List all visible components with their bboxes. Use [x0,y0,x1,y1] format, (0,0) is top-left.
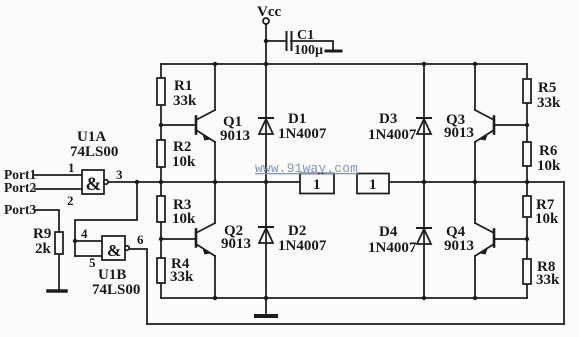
svg-text:U1A: U1A [77,129,106,145]
node top rail D3 [422,62,426,66]
svg-text:R6: R6 [539,143,558,159]
svg-text:D4: D4 [379,224,398,240]
transistor Q3 [475,64,527,182]
svg-text:74LS00: 74LS00 [92,282,140,298]
wire left rail [160,64,162,298]
wire U1A out to U1B inputs [75,182,137,256]
wire D3 column [423,64,425,182]
U1B output bubble [125,246,129,250]
svg-text:1N4007: 1N4007 [278,238,327,254]
svg-text:2k: 2k [35,241,52,257]
diode D2 [259,227,273,243]
diode D1 [259,118,273,134]
svg-text:D3: D3 [379,111,397,127]
wire Vcc drop [265,24,267,64]
svg-text:D2: D2 [288,223,306,239]
transistor Q4 [475,182,527,298]
svg-text:1N4007: 1N4007 [278,126,327,142]
svg-text:U1B: U1B [98,267,126,283]
svg-text:4: 4 [81,226,88,241]
svg-text:9013: 9013 [444,125,474,141]
wire Port2 [35,188,82,190]
wire D4 column [423,182,425,298]
resistor R1 [157,78,165,105]
svg-text:R5: R5 [538,80,556,96]
wire D1 column [265,64,267,182]
svg-text:10k: 10k [172,154,196,170]
svg-text:&: & [86,174,102,195]
node bottom D2 [264,296,268,300]
svg-text:10k: 10k [172,211,196,227]
ground (main, under D2) [256,314,276,318]
resistor R9 [55,232,63,254]
node mid Q3/Q4 [473,180,477,184]
svg-text:Port3: Port3 [4,202,36,217]
svg-text:1: 1 [68,160,75,175]
node top rail Q3 [473,62,477,66]
node mid D1/D2 [264,180,268,184]
svg-text:1N4007: 1N4007 [368,240,417,256]
wire U1B pin5 [75,255,102,257]
svg-text:R9: R9 [33,226,51,242]
resistor R6 [523,142,531,166]
svg-text:R2: R2 [173,139,191,155]
node mid right rail [525,180,529,184]
node C1 tap [264,39,268,43]
node Q3 base [525,123,529,127]
capacitor C1 [287,32,292,50]
wire right edge drop [563,182,565,324]
wire Port1 [35,174,82,176]
transistor Q1 [161,64,215,182]
wire right rail [526,64,528,298]
node Q1 base [159,123,163,127]
svg-text:www.91way.com: www.91way.com [255,161,358,176]
wire U1B pin4 [75,240,102,242]
svg-text:10k: 10k [537,158,561,174]
resistor R7 [523,196,531,217]
ground (C1) [326,50,341,53]
svg-text:33k: 33k [170,269,194,285]
svg-text:6: 6 [137,232,144,247]
svg-text:33k: 33k [537,95,561,111]
svg-text:1: 1 [313,177,321,193]
wire U1B pin6 drop [129,249,147,324]
svg-text:100µ: 100µ [294,43,323,58]
svg-text:74LS00: 74LS00 [70,144,118,160]
svg-text:10k: 10k [535,211,559,227]
wire R9 to ground [58,254,60,290]
ground (R9) [48,289,66,293]
resistor R8 [523,259,531,284]
node bottom D4 [422,296,426,300]
svg-text:2: 2 [67,193,74,208]
resistor R4 [157,258,165,283]
motor terminal box 1 (left) [300,174,334,194]
Vcc terminal [263,18,269,24]
resistor R5 [523,79,531,103]
wire mid line left (U1A output to motor box) [108,181,300,183]
node mid D3/D4 [422,180,426,184]
diode D4 [417,228,431,244]
svg-text:C1: C1 [297,28,314,43]
svg-text:9013: 9013 [221,236,251,252]
node U1B pin4 [73,239,77,243]
node bottom Q4 [473,296,477,300]
wire top rail [161,63,527,65]
wire Port3 [35,210,59,232]
node bottom Q2 [213,296,217,300]
wire D2 column [265,182,267,298]
svg-text:1: 1 [369,177,377,193]
diode D3 [417,118,431,134]
svg-text:33k: 33k [173,93,197,109]
wire D2 ground stub [265,298,267,313]
motor terminal box 2 (right) [357,174,389,194]
node mid Q1/Q2 [213,180,217,184]
wire C1 branch [266,40,286,42]
svg-text:9013: 9013 [220,128,250,144]
U1A output bubble [104,180,108,184]
node Q2 base [159,237,163,241]
svg-text:&: & [107,241,121,260]
svg-text:Port2: Port2 [4,180,36,195]
op-amp U1B (NAND gate) [102,236,125,260]
wire C1 to ground [291,41,333,50]
node Q4 base [525,237,529,241]
svg-text:9013: 9013 [444,238,474,254]
wire bottom outer [147,323,564,325]
transistor Q2 [161,182,215,298]
svg-text:D1: D1 [288,111,306,127]
svg-text:5: 5 [89,255,96,270]
wire mid line right (motor box to right corner) [389,181,564,183]
node top rail D1 [264,62,268,66]
resistor R3 [157,196,165,222]
resistor R2 [157,140,165,167]
svg-text:3: 3 [116,167,123,182]
svg-text:Vcc: Vcc [257,4,281,20]
wire bottom rail [161,297,527,299]
node top rail Q1 [213,62,217,66]
svg-text:1N4007: 1N4007 [368,127,417,143]
svg-text:R1: R1 [174,78,192,94]
op-amp U1A (NAND gate) [82,170,104,194]
svg-text:33k: 33k [536,272,560,288]
node mid left rail [159,180,163,184]
node U1A output branch [135,180,139,184]
